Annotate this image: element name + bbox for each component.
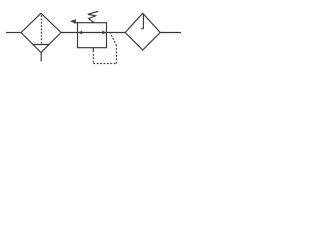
pilot line dashed up [116,46,118,64]
regulator R1 flow arrowhead left [78,31,82,35]
regulator R1 pilot stub [92,48,94,51]
pilot line dashed down [92,51,94,64]
regulator R1 flow arrowhead right [102,31,106,35]
pilot line dashed bottom [93,63,116,65]
regulator R1 adjustment arrowhead [70,19,76,23]
wire outlet lead [160,32,181,34]
regulator R1 body [78,23,107,48]
lubricator L1 drip tube [142,14,144,29]
wire filter to regulator [61,32,78,34]
pilot line dashed diagonal to wire [110,33,116,46]
filter F1 water-trap baffle [33,44,50,46]
filter F1 diamond body [21,13,61,52]
wire regulator to lubricator [107,32,126,34]
filter F1 drain stub [40,52,42,61]
lubricator L1 diamond body [125,13,160,50]
filter F1 element (dotted) [40,15,42,44]
regulator R1 adjustment arrow shaft [74,22,78,24]
regulator R1 flow path [78,32,107,34]
regulator R1 spring [88,11,99,23]
lubricator L1 drip cup arc [141,27,143,29]
wire inlet lead [6,32,21,34]
